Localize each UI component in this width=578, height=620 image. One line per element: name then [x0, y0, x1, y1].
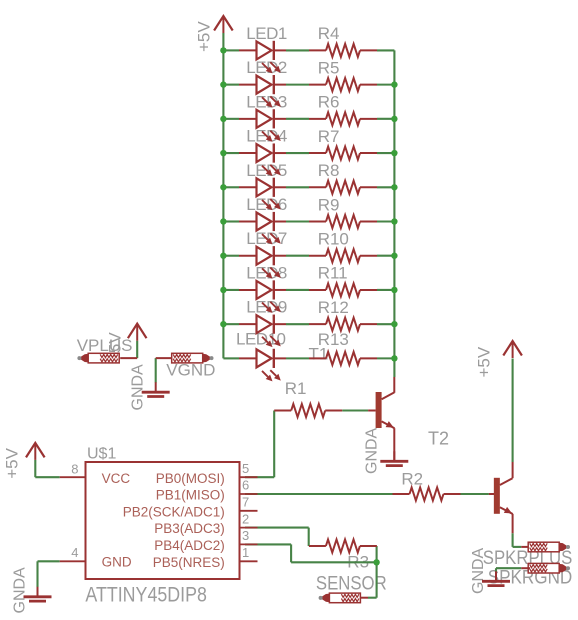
svg-text:T2: T2 [428, 428, 449, 448]
svg-text:GNDA: GNDA [130, 364, 147, 411]
svg-text:R10: R10 [318, 230, 349, 249]
svg-text:VPLUS: VPLUS [77, 336, 133, 355]
svg-text:5: 5 [242, 461, 249, 476]
svg-text:U$1: U$1 [87, 446, 116, 463]
svg-text:6: 6 [242, 478, 249, 493]
svg-text:R7: R7 [318, 127, 340, 146]
svg-text:7: 7 [242, 495, 249, 510]
svg-text:+5V: +5V [3, 447, 22, 478]
svg-text:R11: R11 [318, 264, 348, 283]
svg-text:PB0(MOSI): PB0(MOSI) [156, 471, 225, 486]
svg-text:GNDA: GNDA [364, 427, 381, 474]
svg-text:R1: R1 [285, 379, 307, 398]
svg-text:3: 3 [242, 528, 249, 543]
svg-text:8: 8 [71, 462, 78, 477]
svg-text:GNDA: GNDA [12, 567, 29, 614]
svg-text:R8: R8 [318, 161, 340, 180]
svg-text:R5: R5 [318, 58, 340, 77]
svg-text:R9: R9 [318, 195, 340, 214]
svg-text:PB1(MISO): PB1(MISO) [156, 488, 225, 503]
svg-text:GNDA: GNDA [470, 547, 487, 594]
svg-text:GND: GND [102, 555, 132, 570]
svg-text:LED1: LED1 [246, 24, 287, 43]
svg-text:PB3(ADC3): PB3(ADC3) [154, 521, 225, 536]
svg-text:4: 4 [71, 545, 78, 560]
svg-text:R6: R6 [318, 93, 340, 112]
svg-text:T1: T1 [309, 345, 329, 364]
svg-text:R12: R12 [318, 298, 349, 317]
svg-text:R4: R4 [318, 24, 340, 43]
svg-text:VCC: VCC [102, 471, 131, 486]
svg-text:+5V: +5V [475, 346, 494, 377]
svg-text:PB5(NRES): PB5(NRES) [153, 555, 225, 570]
svg-text:PB2(SCK/ADC1): PB2(SCK/ADC1) [123, 504, 225, 519]
svg-text:1: 1 [242, 545, 249, 560]
svg-text:LED10: LED10 [236, 330, 286, 349]
svg-text:+5V: +5V [195, 21, 214, 52]
svg-text:PB4(ADC2): PB4(ADC2) [154, 538, 225, 553]
svg-text:2: 2 [242, 511, 249, 526]
svg-text:ATTINY45DIP8: ATTINY45DIP8 [85, 584, 206, 607]
